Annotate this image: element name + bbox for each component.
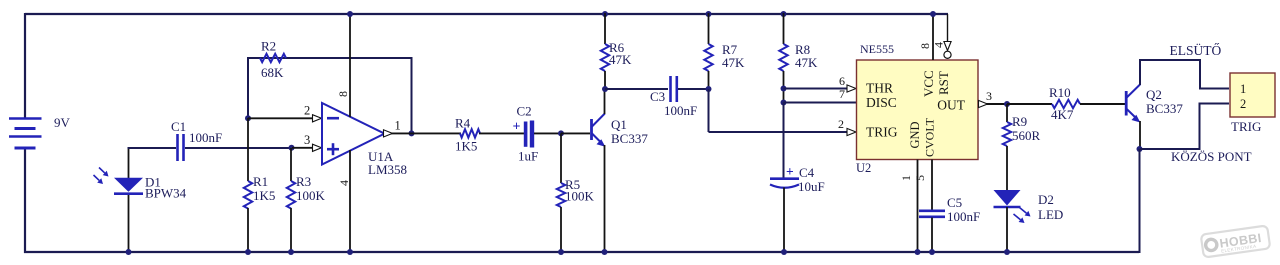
label R10 4K7 (1051, 107, 1074, 122)
pin 3 arrow (313, 144, 322, 151)
op-amp pin 8 wire (349, 13, 351, 117)
label TRIG (866, 125, 898, 140)
node R7 top rail junction (706, 11, 712, 17)
pin 1 output arrow (384, 130, 393, 137)
wire Q1 collector (604, 90, 606, 114)
node R8 THR junction (781, 86, 787, 92)
label C5 100nF (947, 209, 980, 224)
wire R6 node to C3 (605, 88, 668, 90)
svg-text:BPW34: BPW34 (145, 186, 187, 201)
capacitor C3 (671, 76, 677, 102)
svg-text:100K: 100K (565, 189, 595, 204)
battery 9V (9, 119, 42, 149)
wire D2 lower lead (1006, 207, 1008, 253)
svg-text:R1: R1 (253, 174, 268, 189)
label connector pin 1 (1240, 82, 1246, 96)
label pin 3 555 (986, 89, 992, 103)
label TRIG connector (1231, 119, 1261, 134)
resistor R2 (260, 54, 286, 62)
label DISC (866, 95, 897, 110)
wire DISC run (784, 102, 858, 104)
label C2 plus (513, 120, 521, 135)
svg-text:100K: 100K (296, 188, 326, 203)
svg-text:2: 2 (304, 104, 310, 118)
node R6 top rail junction (602, 11, 608, 17)
wire R8 upper lead (783, 13, 785, 44)
label R8 (795, 42, 810, 57)
svg-text:R2: R2 (261, 39, 276, 54)
svg-text:2: 2 (838, 117, 844, 131)
capacitor C4 (770, 179, 799, 188)
node op-amp output junction (409, 130, 415, 136)
pin 3 arrow 555 (979, 100, 988, 107)
svg-text:68K: 68K (261, 65, 284, 80)
label C4 plus (786, 164, 794, 179)
op-amp U1A (322, 103, 385, 165)
node pin8 top rail junction (347, 11, 353, 17)
label VCC (921, 70, 936, 97)
label R10 (1049, 85, 1071, 100)
svg-text:RST: RST (936, 71, 951, 95)
svg-text:10uF: 10uF (798, 179, 825, 194)
resistor R9 (1003, 122, 1011, 146)
label pin 6 (839, 74, 845, 88)
wire feedback top (247, 57, 412, 59)
node R8 DISC junction (781, 100, 787, 106)
label C1 100nF (189, 130, 222, 145)
label pin 2 555 (838, 117, 844, 131)
svg-text:560R: 560R (1012, 128, 1041, 143)
wire R1 upper lead (247, 118, 249, 181)
svg-text:1uF: 1uF (518, 149, 538, 164)
pin 2 arrow 555 (847, 128, 856, 135)
svg-text:47K: 47K (722, 55, 745, 70)
svg-text:2: 2 (1240, 97, 1246, 111)
connector ELSUTO body (1230, 73, 1275, 117)
label OUT (937, 98, 965, 113)
op-amp pin 4 wire (349, 150, 351, 253)
label C1 (171, 119, 186, 134)
svg-text:7: 7 (839, 87, 845, 101)
wire TRIG run (709, 131, 849, 133)
transistor Q2 (1126, 85, 1140, 123)
label Q1 BC337 (611, 131, 648, 146)
wire R4 to C2 (479, 132, 524, 134)
wire OUT run (978, 103, 1008, 105)
label C3 100nF (664, 103, 697, 118)
wire D1 bottom lead (128, 194, 130, 253)
node R8 top rail junction (781, 11, 787, 17)
svg-text:4: 4 (932, 42, 946, 48)
svg-text:100nF: 100nF (947, 209, 980, 224)
node R9 junction (1004, 101, 1010, 107)
wire left rail (battery branch) (24, 13, 26, 119)
svg-text:KÖZÖS PONT: KÖZÖS PONT (1171, 149, 1252, 164)
node D1 ground junction (126, 249, 132, 255)
node pin1 ground junction (915, 249, 921, 255)
light arrows out of D2 (1014, 208, 1031, 224)
resistor R5 (557, 183, 565, 207)
wire pin2 connector run (1140, 104, 1229, 150)
svg-text:OUT: OUT (937, 98, 965, 113)
wire D1 to C1 (128, 147, 177, 149)
label C4 (799, 165, 815, 180)
svg-text:9V: 9V (54, 115, 71, 130)
wire R10 to Q2 base (1080, 103, 1125, 105)
wire R9 node to R10 (1007, 103, 1052, 105)
svg-text:VCC: VCC (921, 70, 936, 97)
label 555 pin 4 (932, 42, 946, 48)
label R5 100K (565, 189, 595, 204)
svg-text:TRIG: TRIG (866, 125, 898, 140)
wire collector top run (1139, 60, 1229, 89)
svg-text:C3: C3 (650, 89, 665, 104)
wire C2 to node (534, 132, 562, 134)
svg-text:U2: U2 (856, 161, 871, 175)
svg-text:Q1: Q1 (611, 117, 627, 132)
wire R6 upper lead (604, 13, 606, 44)
wire R7 down to TRIG (708, 89, 710, 132)
wire R8 to C4 (783, 103, 785, 180)
svg-text:6: 6 (839, 74, 845, 88)
label R1 (253, 174, 268, 189)
label R1 1K5 (253, 188, 275, 203)
wire bottom ground rail (24, 251, 1139, 253)
svg-text:TRIG: TRIG (1231, 119, 1261, 134)
wire THR run (784, 88, 849, 90)
svg-text:LM358: LM358 (368, 162, 407, 177)
label R5 (565, 177, 580, 192)
wire R3 upper lead (290, 148, 292, 181)
wire R9 lower lead (1006, 146, 1008, 190)
label GND (908, 121, 922, 148)
svg-text:C4: C4 (799, 165, 815, 180)
wire R1 lower lead (247, 208, 249, 253)
wire Q2 emitter down (1139, 121, 1141, 150)
label 555 pin 1 (899, 175, 913, 181)
svg-text:1: 1 (899, 175, 913, 181)
svg-text:3: 3 (986, 89, 992, 103)
pin 2 arrow (313, 115, 322, 122)
svg-text:R4: R4 (455, 116, 471, 131)
wire R8 lower lead (783, 71, 785, 103)
wire D1 top lead (128, 147, 130, 178)
svg-text:CVOLT: CVOLT (923, 117, 937, 157)
label R9 (1012, 114, 1027, 129)
label C3 (650, 89, 665, 104)
label U2 (856, 161, 871, 175)
wire base Q1 (561, 132, 590, 134)
label 555 pin 8 (918, 43, 932, 49)
svg-text:4: 4 (337, 180, 351, 186)
wire battery to bottom rail (24, 147, 26, 253)
wire C1 to node R3 (185, 147, 291, 149)
label R3 (296, 174, 311, 189)
svg-text:DISC: DISC (866, 95, 897, 110)
svg-text:C1: C1 (171, 119, 186, 134)
svg-text:+: + (513, 120, 521, 135)
wire 555 pin5 upper (931, 160, 933, 211)
label BPW34 (145, 186, 187, 201)
LED D2 (994, 190, 1021, 207)
wire R2 left drop to minus node (247, 57, 249, 119)
light arrows into D1 (94, 168, 109, 185)
svg-text:R3: R3 (296, 174, 311, 189)
svg-text:4K7: 4K7 (1051, 107, 1074, 122)
wire R7 lower lead (708, 71, 710, 90)
label Q2 (1146, 87, 1162, 102)
label pin 3 (304, 133, 310, 147)
svg-text:3: 3 (304, 133, 310, 147)
wire 555 pin8 (932, 13, 934, 60)
svg-text:THR: THR (866, 81, 893, 96)
svg-text:47K: 47K (795, 55, 818, 70)
label R8 47K (795, 55, 818, 70)
label R6 (609, 40, 625, 55)
node R3 ground junction (288, 249, 294, 255)
label THR (866, 81, 893, 96)
svg-text:1K5: 1K5 (253, 188, 275, 203)
label C2 1uF (518, 149, 538, 164)
wire R6 lower lead (604, 71, 606, 90)
label 9V (54, 115, 71, 130)
svg-text:1: 1 (395, 119, 401, 133)
svg-text:1K5: 1K5 (455, 139, 477, 154)
resistor R4 (460, 129, 480, 137)
svg-text:+: + (786, 164, 794, 179)
label R4 (455, 116, 471, 131)
resistor R8 (779, 44, 787, 71)
label U1A (368, 149, 394, 164)
label R9 560R (1012, 128, 1041, 143)
svg-text:BC337: BC337 (611, 131, 648, 146)
wire output to R4 (391, 132, 461, 134)
node pin8 rail junction (930, 11, 936, 17)
watermark logo (1201, 225, 1271, 257)
node plus input junction (289, 145, 295, 151)
label R3 100K (296, 188, 326, 203)
svg-text:D2: D2 (1038, 192, 1054, 207)
svg-text:GND: GND (908, 121, 922, 148)
transistor Q1 (592, 114, 606, 147)
wire R3 lower lead (290, 208, 292, 253)
node R6 C3 junction (602, 86, 608, 92)
capacitor C1 (178, 134, 184, 161)
node C4 ground junction (781, 249, 787, 255)
wire 555 pin5 lower (931, 218, 933, 254)
label connector pin 2 (1240, 97, 1246, 111)
label Q1 (611, 117, 627, 132)
label pin 4 (337, 180, 351, 186)
label LED (1038, 207, 1063, 222)
label ELSUTO (1170, 43, 1222, 58)
svg-text:NE555: NE555 (860, 42, 894, 56)
IC U2 NE555 body (857, 60, 979, 160)
wire minus input (248, 117, 314, 119)
wire C4 lower lead (783, 188, 785, 254)
label pin 7 (839, 87, 845, 101)
svg-text:ELSÜTŐ: ELSÜTŐ (1170, 43, 1222, 58)
capacitor C2 (526, 121, 532, 148)
label R7 47K (722, 55, 745, 70)
resistor R6 (601, 44, 609, 71)
label R4 1K5 (455, 139, 477, 154)
label pin 8 (336, 91, 350, 97)
node Q1 emitter ground junction (602, 249, 608, 255)
label pin 2 (304, 104, 310, 118)
svg-text:C5: C5 (947, 195, 962, 210)
wire R7 upper lead (708, 13, 710, 44)
node D2 ground junction (1004, 249, 1010, 255)
wire C3 to R7 node (678, 88, 709, 90)
label D1 (145, 175, 161, 190)
wire 555 pin4 (947, 14, 949, 43)
svg-text:8: 8 (918, 43, 932, 49)
wire Q2 collector up (1139, 59, 1141, 85)
svg-text:Q2: Q2 (1146, 87, 1162, 102)
label C2 (517, 104, 532, 119)
node pin4 ground junction (347, 249, 353, 255)
label R2 (261, 39, 276, 54)
label LM358 (368, 162, 407, 177)
node R1 ground junction (245, 249, 251, 255)
resistor R10 (1052, 100, 1080, 108)
node minus input junction (245, 115, 251, 121)
svg-text:47K: 47K (609, 52, 632, 67)
svg-text:C2: C2 (517, 104, 532, 119)
svg-text:BC337: BC337 (1146, 101, 1183, 116)
wire R5 lower lead (560, 207, 562, 253)
svg-text:R9: R9 (1012, 114, 1027, 129)
label KOZOS PONT (1171, 149, 1252, 164)
node emitter junction (1137, 146, 1143, 152)
svg-text:LED: LED (1038, 207, 1063, 222)
wire plus input (292, 147, 314, 149)
wire emitter to ground (1139, 149, 1141, 253)
label CVOLT (923, 117, 937, 157)
pin4 bubble (944, 51, 951, 58)
node pin5 ground junction (929, 249, 935, 255)
svg-text:5: 5 (913, 175, 927, 181)
label R7 (722, 42, 738, 57)
svg-text:R10: R10 (1049, 85, 1071, 100)
svg-text:8: 8 (336, 91, 350, 97)
label 555 pin 5 (913, 175, 927, 181)
node Q1 base junction (558, 130, 564, 136)
resistor R1 (244, 181, 252, 208)
resistor R3 (287, 181, 295, 208)
pin 6 arrow 555 (847, 85, 856, 92)
wire Q1 emitter (604, 145, 606, 253)
label D2 (1038, 192, 1054, 207)
resistor R7 (704, 44, 712, 71)
capacitor C5 (919, 211, 945, 217)
pin4 reset arrow (944, 42, 951, 51)
label Q2 BC337 (1146, 101, 1183, 116)
wire 555 pin1 GND (917, 160, 919, 254)
wire top supply rail (25, 13, 948, 15)
svg-text:100nF: 100nF (189, 130, 222, 145)
svg-text:1: 1 (1240, 82, 1246, 96)
wire R9 upper lead (1006, 104, 1008, 122)
label C5 (947, 195, 962, 210)
label C4 10uF (798, 179, 825, 194)
label R6 47K (609, 52, 632, 67)
svg-text:100nF: 100nF (664, 103, 697, 118)
label R2 68K (261, 65, 284, 80)
node R5 ground junction (558, 249, 564, 255)
label NE555 (860, 42, 894, 56)
wire feedback drop (411, 57, 413, 134)
photodiode D1 (114, 178, 143, 194)
wire R5 upper lead (560, 133, 562, 183)
label pin 1 (395, 119, 401, 133)
node R7 C3 junction (706, 86, 712, 92)
label RST (936, 71, 951, 95)
